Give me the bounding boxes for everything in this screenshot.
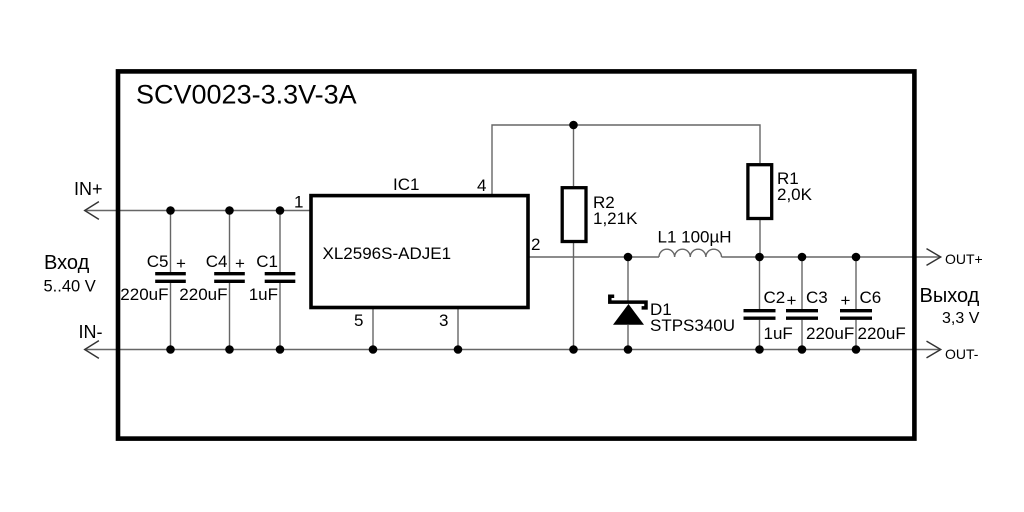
wire R2 top riser bbox=[573, 125, 575, 186]
svg-text:1uF: 1uF bbox=[764, 324, 793, 343]
wire feedback top net (pin4 to R2 to R1) bbox=[492, 125, 760, 197]
svg-text:4: 4 bbox=[477, 176, 486, 195]
C2 label bbox=[764, 288, 786, 307]
C2 polarity plus bbox=[787, 291, 797, 310]
svg-text:IN-: IN- bbox=[79, 322, 103, 342]
capacitor C5 plates bbox=[155, 274, 186, 282]
svg-text:IC1: IC1 bbox=[393, 175, 419, 194]
svg-text:220uF: 220uF bbox=[179, 285, 227, 304]
resistor R2 body bbox=[562, 188, 586, 242]
C1 label bbox=[256, 252, 278, 271]
capacitor C6 plates bbox=[840, 311, 872, 319]
capacitor C4 plates bbox=[214, 274, 245, 282]
wire C2 leads bbox=[759, 257, 761, 350]
pin number 4 bbox=[477, 176, 486, 195]
port arrow OUT- bbox=[927, 341, 941, 358]
C3 value 220uF bbox=[806, 324, 854, 343]
wire C1 leads bbox=[279, 211, 281, 350]
junction node (802,349.5) bbox=[798, 345, 807, 354]
svg-text:3: 3 bbox=[439, 311, 448, 330]
wire C4 leads bbox=[229, 211, 231, 350]
resistor R1 body bbox=[748, 165, 772, 219]
D1 value STPS340U bbox=[650, 316, 735, 335]
junction node (856,257) bbox=[852, 253, 861, 262]
OUT+ label bbox=[945, 251, 983, 267]
input range label 5..40 V bbox=[44, 277, 96, 295]
junction node (573.5,349.5) bbox=[569, 345, 578, 354]
IC chip IC1 body bbox=[311, 196, 528, 308]
svg-text:1,21K: 1,21K bbox=[593, 209, 638, 228]
svg-text:C3: C3 bbox=[806, 288, 828, 307]
svg-text:+: + bbox=[235, 254, 245, 273]
capacitor C1 plates bbox=[265, 274, 296, 282]
svg-text:SCV0023-3.3V-3A: SCV0023-3.3V-3A bbox=[136, 80, 357, 110]
wire C5 leads bbox=[170, 211, 172, 350]
svg-text:2: 2 bbox=[531, 235, 540, 254]
svg-text:C4: C4 bbox=[206, 252, 228, 271]
svg-text:OUT+: OUT+ bbox=[945, 251, 983, 267]
junction node (759.5,349.5) bbox=[755, 345, 764, 354]
IC1 value XL2596S-ADJE1 bbox=[323, 244, 452, 263]
svg-text:Выход: Выход bbox=[920, 285, 980, 307]
svg-text:5: 5 bbox=[354, 311, 363, 330]
pin number 3 bbox=[439, 311, 448, 330]
C6 polarity plus bbox=[841, 291, 851, 310]
junction node (170.5,210.5) bbox=[166, 206, 175, 215]
junction node (229.5,210.5) bbox=[225, 206, 234, 215]
C5 label bbox=[147, 252, 169, 271]
svg-text:Вход: Вход bbox=[44, 252, 90, 274]
output voltage label 3,3 V bbox=[942, 310, 980, 327]
svg-text:220uF: 220uF bbox=[120, 285, 168, 304]
svg-text:L1 100µH: L1 100µH bbox=[658, 228, 732, 247]
wire IN- / ground bottom rail bbox=[85, 349, 941, 351]
wire C6 leads bbox=[855, 257, 857, 350]
svg-text:1: 1 bbox=[294, 193, 303, 212]
output name label bbox=[920, 285, 980, 307]
junction node (229.5,349.5) bbox=[225, 345, 234, 354]
junction node (628,349.5) bbox=[624, 345, 633, 354]
wire pin5 to ground bbox=[372, 308, 374, 350]
pin number 1 bbox=[294, 193, 303, 212]
input name label bbox=[44, 252, 90, 274]
inductor L1 coil bbox=[659, 249, 722, 257]
wire C3 leads bbox=[801, 257, 803, 350]
C5 polarity plus bbox=[176, 254, 186, 273]
junction node (573.5,125) bbox=[569, 121, 578, 130]
wire R1 bottom riser bbox=[759, 220, 761, 258]
OUT- label bbox=[945, 346, 979, 362]
svg-text:+: + bbox=[176, 254, 186, 273]
wire D1 cathode riser bbox=[627, 257, 629, 301]
IN- label bbox=[79, 322, 103, 342]
junction node (170.5,349.5) bbox=[166, 345, 175, 354]
junction node (280,349.5) bbox=[276, 345, 285, 354]
R2 label bbox=[593, 193, 615, 212]
title SCV0023-3.3V-3A bbox=[136, 80, 357, 110]
svg-text:2,0K: 2,0K bbox=[777, 185, 813, 204]
C4 value 220uF bbox=[179, 285, 227, 304]
C4 label bbox=[206, 252, 228, 271]
wire R2 bottom riser bbox=[573, 243, 575, 350]
pin number 2 bbox=[531, 235, 540, 254]
junction node (856,349.5) bbox=[852, 345, 861, 354]
L1 value label 100uH bbox=[658, 228, 732, 247]
wire IN+ rail bbox=[85, 210, 311, 212]
svg-text:OUT-: OUT- bbox=[945, 346, 979, 362]
diode D1 anode triangle bbox=[613, 304, 644, 325]
junction node (280,210.5) bbox=[276, 206, 285, 215]
module boundary box bbox=[118, 71, 914, 438]
D1 label bbox=[650, 300, 672, 319]
svg-text:220uF: 220uF bbox=[858, 324, 906, 343]
wire OUT+ rail (pin2 to output) bbox=[529, 256, 941, 258]
capacitor C2 plates bbox=[744, 311, 776, 319]
svg-text:1uF: 1uF bbox=[249, 285, 278, 304]
port arrow IN+ bbox=[85, 202, 99, 220]
R2 value 1,21K bbox=[593, 209, 638, 228]
junction node (759.5,257) bbox=[755, 253, 764, 262]
junction node (458,349.5) bbox=[454, 345, 463, 354]
junction node (373,349.5) bbox=[369, 345, 378, 354]
svg-text:C5: C5 bbox=[147, 252, 169, 271]
C6 label bbox=[860, 288, 882, 307]
svg-text:C2: C2 bbox=[764, 288, 786, 307]
C1 value 1uF bbox=[249, 285, 278, 304]
port arrow IN- bbox=[85, 341, 99, 359]
wire D1 anode riser bbox=[627, 325, 629, 350]
C5 value 220uF bbox=[120, 285, 168, 304]
C3 label bbox=[806, 288, 828, 307]
C6 value 220uF bbox=[858, 324, 906, 343]
svg-text:+: + bbox=[841, 291, 851, 310]
svg-text:C1: C1 bbox=[256, 252, 278, 271]
IC1 reference label bbox=[393, 175, 419, 194]
svg-text:XL2596S-ADJE1: XL2596S-ADJE1 bbox=[323, 244, 452, 263]
svg-text:220uF: 220uF bbox=[806, 324, 854, 343]
R1 label bbox=[777, 169, 799, 188]
capacitor C3 plates bbox=[786, 311, 818, 319]
R1 value 2,0K bbox=[777, 185, 813, 204]
junction node (628,257) bbox=[624, 253, 633, 262]
C2 value 1uF bbox=[764, 324, 793, 343]
svg-text:3,3 V: 3,3 V bbox=[942, 310, 980, 327]
C4 polarity plus bbox=[235, 254, 245, 273]
port arrow OUT+ bbox=[927, 249, 941, 266]
svg-text:+: + bbox=[787, 291, 797, 310]
wire pin3 to ground bbox=[457, 308, 459, 350]
svg-text:STPS340U: STPS340U bbox=[650, 316, 735, 335]
svg-text:IN+: IN+ bbox=[74, 179, 103, 199]
pin number 5 bbox=[354, 311, 363, 330]
diode D1 cathode bar (schottky) bbox=[610, 296, 646, 308]
svg-text:C6: C6 bbox=[860, 288, 882, 307]
svg-text:5..40 V: 5..40 V bbox=[44, 277, 96, 295]
IN+ label bbox=[74, 179, 103, 199]
junction node (802,257) bbox=[798, 253, 807, 262]
